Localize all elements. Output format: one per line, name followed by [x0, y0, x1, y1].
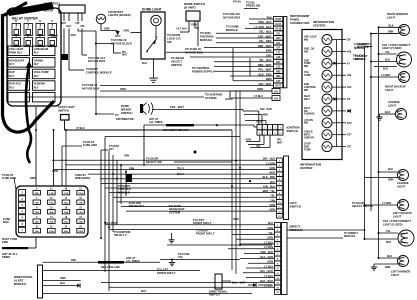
svg-text:BLK: BLK [60, 282, 65, 285]
svg-text:G77: G77 [347, 134, 352, 137]
svg-text:PARK RLY: PARK RLY [9, 51, 22, 55]
svg-text:BLK: BLK [386, 241, 391, 244]
svg-text:SWITCH: SWITCH [353, 57, 363, 61]
svg-text:YEL: YEL [385, 51, 390, 54]
svg-text:SWITCH: SWITCH [121, 111, 132, 115]
svg-text:A: A [15, 27, 17, 30]
svg-text:L87: L87 [276, 80, 281, 83]
svg-text:WHT: WHT [61, 23, 67, 25]
svg-text:BLU - WHT: BLU - WHT [260, 270, 273, 273]
svg-text:SWITCH: SWITCH [171, 63, 182, 67]
svg-text:GRN: GRN [191, 23, 197, 27]
svg-text:(B UNIT): (B UNIT) [184, 5, 196, 9]
svg-text:R88: R88 [276, 70, 281, 73]
svg-text:LT BLU: LT BLU [76, 126, 85, 130]
svg-text:RIGHT MARKER: RIGHT MARKER [387, 12, 408, 16]
svg-text:LT GRN: LT GRN [382, 202, 391, 205]
svg-text:PO-5A: PO-5A [233, 0, 241, 4]
svg-text:TGA: TGA [34, 211, 39, 214]
svg-text:YEL A: YEL A [177, 167, 184, 170]
svg-text:WHT: WHT [269, 172, 275, 175]
svg-text:H/D: H/D [304, 50, 308, 53]
svg-text:IND: IND [304, 122, 308, 125]
svg-text:10A: 10A [35, 201, 39, 204]
svg-text:RIGHT BACKUP: RIGHT BACKUP [385, 85, 406, 89]
svg-text:LT BLU: LT BLU [264, 265, 273, 268]
svg-text:BLK - WHT: BLK - WHT [260, 280, 273, 283]
svg-text:RED - WHT: RED - WHT [258, 63, 272, 67]
svg-text:BREAKERS: BREAKERS [75, 176, 90, 180]
svg-text:MODULE: MODULE [14, 282, 26, 286]
svg-text:BLK - GRN: BLK - GRN [260, 256, 273, 259]
svg-text:LTB: LTB [274, 91, 279, 93]
svg-text:RAB: RAB [276, 18, 282, 21]
svg-text:TEMP: TEMP [304, 148, 311, 151]
svg-text:BLU WHT: BLU WHT [105, 221, 117, 225]
svg-text:BLU: BLU [268, 222, 273, 225]
svg-text:FRONT DIR LT: FRONT DIR LT [196, 232, 215, 236]
svg-text:BRAKE RLY: BRAKE RLY [129, 204, 145, 208]
svg-text:10A: 10A [79, 201, 83, 204]
svg-text:GRN: GRN [124, 156, 129, 158]
svg-text:LINK: LINK [2, 240, 8, 244]
svg-text:LT BLU: LT BLU [264, 241, 273, 244]
svg-text:LIGHT: LIGHT [391, 273, 399, 277]
svg-text:L73: L73 [276, 51, 281, 54]
svg-text:A: A [51, 27, 53, 30]
svg-text:ORANGE FUSE LINK: ORANGE FUSE LINK [163, 128, 189, 132]
svg-text:25A: 25A [64, 230, 68, 233]
svg-text:GRY: GRY [266, 53, 272, 57]
svg-text:TAN - WHT: TAN - WHT [260, 108, 273, 111]
svg-text:FUEL PUMP: FUEL PUMP [34, 70, 49, 74]
svg-text:ORN: ORN [129, 169, 134, 171]
svg-text:CONNECTOR: CONNECTOR [290, 21, 310, 25]
svg-text:RLY: RLY [34, 85, 39, 89]
svg-text:PNK - BLK: PNK - BLK [258, 20, 271, 24]
svg-text:BLK: BLK [142, 62, 147, 65]
svg-text:G23: G23 [276, 37, 281, 40]
svg-text:FRONT DIR LT: FRONT DIR LT [193, 221, 212, 225]
svg-text:TGA: TGA [49, 230, 54, 233]
svg-text:LICENSE: LICENSE [397, 181, 409, 185]
svg-text:HEADLIGHT: HEADLIGHT [9, 59, 24, 63]
svg-text:TIMES: TIMES [2, 255, 10, 259]
svg-text:LIGHT: LIGHT [388, 103, 396, 107]
svg-text:FUSE LINK: FUSE LINK [83, 143, 97, 147]
svg-text:CENTER: CENTER [300, 166, 313, 170]
svg-text:PPL: PPL [76, 23, 81, 25]
svg-text:LT GRN: LT GRN [266, 162, 275, 165]
svg-text:25A: 25A [49, 211, 53, 214]
svg-text:TAN - WHT: TAN - WHT [258, 82, 272, 86]
svg-text:LIGHTS (BUSES): LIGHTS (BUSES) [108, 13, 131, 17]
svg-text:SW RLY C: SW RLY C [114, 233, 127, 237]
svg-text:CONTROL MODULE: CONTROL MODULE [86, 70, 112, 74]
svg-text:MODULE: MODULE [118, 190, 130, 194]
svg-text:TGA: TGA [64, 211, 69, 214]
svg-text:TGA: TGA [78, 192, 83, 195]
svg-text:BRN: BRN [385, 266, 391, 269]
svg-text:L98: L98 [276, 56, 281, 59]
svg-text:RED - WHT: RED - WHT [258, 44, 272, 48]
svg-text:TAN - BLU: TAN - BLU [263, 185, 275, 188]
svg-text:GRN: GRN [270, 204, 276, 207]
svg-text:IND: IND [304, 65, 308, 68]
svg-text:PRESS SW: PRESS SW [246, 4, 261, 8]
svg-text:IND: IND [304, 89, 308, 92]
svg-text:CRANK: CRANK [34, 59, 43, 63]
svg-text:SW: SW [167, 40, 172, 44]
svg-text:10A: 10A [35, 230, 39, 233]
svg-text:IN FUSE BOX: IN FUSE BOX [223, 15, 240, 19]
svg-text:FRONT DIR LT: FRONT DIR LT [157, 271, 176, 275]
svg-text:#10: #10 [178, 255, 183, 259]
svg-text:LIGHT: LIGHT [387, 15, 395, 19]
svg-text:BLK: BLK [385, 59, 390, 62]
svg-text:BRN - YEL: BRN - YEL [263, 190, 276, 193]
svg-text:YEL: YEL [268, 232, 273, 235]
svg-text:BLK: BLK [383, 68, 388, 71]
svg-text:GRN: GRN [124, 30, 130, 33]
svg-text:C211: C211 [275, 23, 281, 26]
svg-text:PPL: PPL [81, 26, 86, 28]
svg-text:BLK: BLK [385, 111, 390, 114]
svg-text:BLK - RED: BLK - RED [258, 72, 271, 76]
svg-text:RED: RED [30, 176, 36, 180]
svg-text:BRN: BRN [388, 179, 394, 182]
svg-text:A: A [27, 27, 29, 30]
svg-text:IN FUSE BOX: IN FUSE BOX [82, 86, 99, 90]
svg-text:L52: L52 [276, 66, 281, 69]
svg-text:GRN: GRN [268, 227, 274, 230]
svg-text:BLK: BLK [387, 255, 392, 258]
svg-text:LTB: LTB [274, 98, 279, 100]
svg-text:IND: IND [304, 38, 308, 41]
svg-text:MODULE: MODULE [344, 234, 355, 238]
svg-text:GRN: GRN [268, 237, 274, 240]
svg-text:SYSTEM: SYSTEM [205, 96, 217, 100]
svg-text:RLY: RLY [34, 62, 39, 66]
svg-text:ALL TIMES: ALL TIMES [149, 120, 163, 124]
svg-text:CHARGE: CHARGE [304, 113, 315, 116]
svg-text:LT BLU: LT BLU [264, 275, 273, 278]
svg-text:BLK: BLK [388, 168, 393, 171]
svg-text:S10: S10 [347, 86, 352, 89]
svg-text:SWITCH: SWITCH [58, 108, 69, 112]
svg-text:BLK: BLK [389, 24, 394, 27]
svg-text:RAP: RAP [9, 70, 15, 74]
svg-text:S77: S77 [347, 146, 352, 149]
svg-text:LIGHT: LIGHT [397, 184, 405, 188]
svg-text:TO: TO [115, 113, 119, 117]
svg-text:LIGHT: LIGHT [393, 214, 401, 218]
svg-text:RLY: RLY [34, 51, 39, 55]
svg-text:LEFT BACKUP: LEFT BACKUP [393, 211, 412, 215]
svg-text:10A: 10A [64, 220, 68, 223]
svg-text:BLU A: BLU A [177, 173, 184, 176]
svg-text:RED: RED [256, 121, 261, 124]
svg-text:ORN: ORN [52, 169, 58, 173]
svg-text:25A: 25A [35, 192, 39, 195]
svg-text:BLU: BLU [270, 181, 275, 184]
svg-text:ORN: ORN [71, 35, 76, 37]
svg-text:LOW BEAM: LOW BEAM [34, 47, 48, 51]
svg-text:ORN: ORN [104, 27, 110, 30]
svg-text:BLU: BLU [141, 289, 146, 293]
svg-text:GRN: GRN [268, 261, 274, 264]
svg-text:LIGHT (2 USED): LIGHT (2 USED) [383, 222, 403, 226]
svg-text:RLY: RLY [9, 74, 14, 78]
svg-text:POWER SUPPLY: POWER SUPPLY [192, 69, 214, 73]
svg-text:LT GRN: LT GRN [264, 246, 273, 249]
svg-text:ORN: ORN [60, 277, 66, 280]
svg-text:7.5A: 7.5A [64, 192, 69, 195]
svg-text:LIGHT: LIGHT [385, 88, 393, 92]
svg-text:ORN: ORN [270, 209, 276, 212]
svg-text:Y/LT BLU: Y/LT BLU [176, 27, 188, 31]
svg-text:RAP ACC: RAP ACC [9, 82, 21, 86]
svg-text:SWITCH: SWITCH [209, 293, 220, 297]
svg-text:7.5A: 7.5A [49, 192, 54, 195]
svg-text:CENTER: CENTER [313, 24, 326, 28]
svg-text:IN FUSE BLOCK: IN FUSE BLOCK [111, 41, 132, 45]
svg-text:SYSTEM: SYSTEM [169, 210, 181, 214]
svg-text:RED: RED [71, 259, 76, 262]
svg-text:ORN: ORN [246, 139, 252, 142]
svg-text:MODULE: MODULE [226, 28, 238, 32]
svg-text:PPL: PPL [122, 52, 127, 54]
svg-text:WHT: WHT [122, 55, 128, 57]
svg-text:RLY: RLY [9, 85, 14, 89]
svg-text:K47: K47 [276, 61, 281, 64]
svg-text:GRY - WHT: GRY - WHT [258, 34, 272, 38]
svg-text:MODULE: MODULE [200, 38, 212, 42]
svg-text:AT10: AT10 [275, 28, 281, 31]
svg-text:BLK: BLK [67, 26, 72, 28]
svg-text:7.5A: 7.5A [78, 211, 83, 214]
svg-text:TGA: TGA [49, 201, 54, 204]
svg-text:RLY: RLY [9, 62, 14, 66]
svg-text:LEFT MARKER: LEFT MARKER [391, 270, 410, 274]
svg-text:WHT: WHT [277, 142, 283, 145]
svg-text:CENTER: CENTER [304, 137, 314, 140]
svg-text:HI BEAM: HI BEAM [34, 82, 45, 86]
svg-text:PNK: PNK [263, 114, 268, 117]
svg-text:BRN: BRN [388, 31, 394, 34]
svg-text:TAN: TAN [270, 199, 275, 202]
svg-text:YEL: YEL [386, 230, 391, 233]
svg-text:RED FUSE LINK: RED FUSE LINK [101, 266, 120, 269]
svg-text:LICENSE: LICENSE [388, 100, 400, 104]
svg-text:MODULE: MODULE [354, 46, 365, 50]
svg-text:PNK - BLK: PNK - BLK [261, 251, 274, 254]
svg-text:SWITCH: SWITCH [287, 129, 298, 133]
svg-text:BLK: BLK [53, 36, 58, 38]
svg-text:FOG LIGHT: FOG LIGHT [9, 47, 23, 51]
svg-text:SWITCH: SWITCH [290, 204, 301, 208]
svg-text:GRY - BLK: GRY - BLK [263, 158, 276, 161]
svg-text:DISTRIBUTOR: DISTRIBUTOR [116, 117, 134, 121]
svg-text:#49: #49 [347, 74, 352, 77]
svg-text:GRN: GRN [270, 167, 276, 170]
svg-text:TGA: TGA [78, 230, 83, 233]
svg-text:87R: 87R [347, 122, 352, 125]
svg-text:LT GRN - BLK: LT GRN - BLK [255, 25, 272, 29]
svg-text:LIGHT (2 USED): LIGHT (2 USED) [382, 46, 402, 50]
svg-text:25A: 25A [35, 220, 39, 223]
svg-text:TAN: TAN [266, 15, 271, 19]
svg-text:YEL: YEL [270, 195, 275, 198]
svg-text:YEL - RED: YEL - RED [259, 39, 272, 43]
svg-text:ORN: ORN [257, 87, 263, 91]
svg-text:MODULE: MODULE [290, 228, 303, 232]
svg-text:10A: 10A [49, 220, 53, 223]
svg-text:PPL - WHT: PPL - WHT [258, 68, 272, 72]
svg-text:G21: G21 [276, 42, 281, 45]
svg-text:YEL - BLK: YEL - BLK [259, 58, 272, 62]
svg-text:25A: 25A [79, 220, 83, 223]
svg-text:IN FUSE BOX: IN FUSE BOX [88, 59, 105, 63]
svg-text:LT GRN: LT GRN [381, 74, 390, 77]
svg-text:RELAY: RELAY [44, 8, 54, 12]
svg-text:RLY: RLY [109, 147, 114, 151]
svg-text:TEMP: TEMP [304, 74, 311, 77]
svg-text:AT17: AT17 [275, 85, 281, 88]
svg-text:BRN: BRN [266, 77, 272, 81]
svg-text:LT BLU: LT BLU [254, 94, 263, 98]
svg-text:#39: #39 [347, 50, 352, 53]
svg-text:BLU - WHT: BLU - WHT [232, 281, 246, 285]
svg-text:YEL - BLK: YEL - BLK [259, 30, 272, 34]
svg-text:BELT: BELT [304, 98, 311, 101]
svg-text:SELECT SW: SELECT SW [146, 160, 162, 164]
svg-text:TAN - WHT: TAN - WHT [170, 105, 184, 109]
svg-text:A: A [39, 27, 41, 30]
svg-text:ORN: ORN [120, 87, 126, 91]
svg-text:BRN: BRN [266, 49, 272, 53]
svg-text:25A: 25A [64, 201, 68, 204]
svg-text:BLK - PNK: BLK - PNK [263, 176, 276, 179]
svg-text:RLY: RLY [34, 74, 39, 78]
svg-text:DOME LIGHT: DOME LIGHT [142, 8, 162, 12]
svg-text:BOX: BOX [3, 220, 9, 224]
svg-text:R80: R80 [276, 75, 281, 78]
